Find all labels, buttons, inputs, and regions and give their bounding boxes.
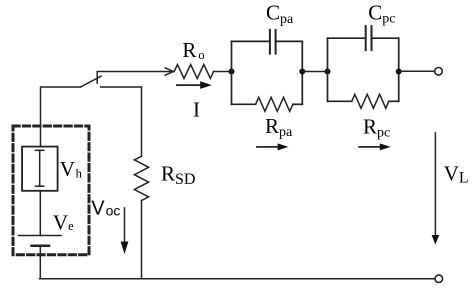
- resistor R_o zigzag: [174, 65, 213, 79]
- switch contact stub: [96, 72, 98, 83]
- wire V_h to battery: [39, 191, 41, 236]
- RC pair 2: top wire right: [372, 37, 399, 39]
- node dot left of C_pa branch: [229, 69, 235, 75]
- wire battery top vertical: [41, 87, 81, 147]
- svg-text:Cpa: Cpa: [266, 1, 294, 27]
- RC pair 1: bottom wire right: [293, 103, 302, 105]
- arrow under R_pc: [358, 143, 390, 150]
- bottom rail wire: [40, 278, 435, 280]
- RC pair 1: top wire left: [232, 40, 270, 42]
- voltage source V_h rectangle: [22, 147, 58, 191]
- node dot right of pair 1: [299, 69, 305, 75]
- svg-text:Voc: Voc: [91, 197, 120, 219]
- svg-text:Ro: Ro: [182, 38, 204, 62]
- capacitor C_pc plates: [365, 26, 367, 50]
- RC pair 2: top wire left: [328, 37, 366, 39]
- battery V_e short plate: [32, 244, 50, 247]
- RC pair 2: bottom wire right: [389, 100, 399, 102]
- top terminal circle: [435, 68, 443, 76]
- wire R_o to node: [214, 71, 232, 73]
- dashed battery box: [13, 126, 89, 255]
- node dot right of pair 2: [396, 69, 402, 75]
- bottom terminal circle: [435, 275, 443, 283]
- svg-text:Cpc: Cpc: [368, 0, 395, 26]
- node dot left of pair 2: [325, 69, 331, 75]
- capacitor C_pa plates: [269, 30, 271, 54]
- RC pair 1: right vertical wire: [301, 41, 303, 104]
- resistor R_pc zigzag: [352, 94, 389, 108]
- RC pair 1: left vertical wire: [231, 41, 233, 104]
- svg-text:I: I: [193, 98, 200, 122]
- V_oc annotation arrow: [124, 208, 126, 242]
- switch blade: [81, 76, 102, 87]
- current arrow I: [176, 81, 212, 89]
- wire switch right to R_SD: [101, 87, 142, 156]
- V_h I-beam symbol: [36, 150, 44, 186]
- battery V_e long plate: [19, 235, 61, 237]
- resistor R_SD zigzag: [134, 156, 148, 200]
- resistor R_pa zigzag: [256, 97, 293, 111]
- RC pair 2: left vertical wire: [327, 38, 329, 101]
- V_L annotation arrow: [434, 133, 436, 236]
- svg-text:RSD: RSD: [161, 161, 195, 188]
- svg-text:VL: VL: [444, 162, 469, 187]
- svg-text:Ve: Ve: [53, 211, 74, 235]
- arrow under R_pa: [256, 143, 288, 150]
- wire arrowhead on rail: [165, 68, 173, 75]
- wire to top terminal: [399, 70, 435, 72]
- wire battery to bottom rail: [39, 246, 41, 279]
- RC pair 2: bottom wire left: [328, 100, 352, 102]
- wire between RC pairs: [302, 71, 327, 73]
- wire R_SD bottom to rail: [141, 201, 143, 279]
- svg-text:Rpc: Rpc: [363, 114, 390, 140]
- svg-text:Rpa: Rpa: [265, 114, 293, 140]
- svg-text:Vh: Vh: [60, 157, 83, 181]
- RC pair 2: right vertical wire: [398, 38, 400, 101]
- RC pair 1: bottom wire left: [232, 103, 256, 105]
- wire top rail to R_o: [97, 71, 174, 73]
- RC pair 1: top wire right: [276, 40, 303, 42]
